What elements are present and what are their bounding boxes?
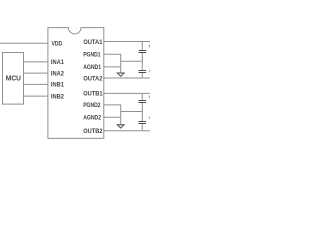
wire VDD supply	[0, 42, 48, 44]
ground symbol B	[117, 125, 124, 128]
clipped capacitor label fragment near C1	[149, 45, 150, 48]
driver IC U1 body with pin-1 notch	[48, 28, 104, 139]
clipped capacitor label fragment near C4	[149, 116, 150, 119]
wire PGND1	[104, 54, 121, 73]
wire OUTA1	[104, 41, 150, 43]
capacitor C3 (OUTB1 to gnd)	[139, 93, 147, 111]
svg-text:OUTA1: OUTA1	[83, 39, 103, 46]
wire OUTA2	[104, 77, 150, 79]
clipped capacitor label fragment near C2	[149, 70, 150, 73]
svg-text:AGND2: AGND2	[83, 115, 101, 122]
wire MCU to INB2	[24, 95, 48, 97]
wire PGND2	[104, 105, 121, 125]
wire AGND2	[104, 116, 121, 118]
wire OUTB1	[104, 92, 150, 94]
svg-text:OUTA2: OUTA2	[83, 75, 103, 82]
capacitor C2 (gnd to OUTA2)	[139, 61, 147, 78]
svg-text:INB1: INB1	[51, 82, 64, 89]
svg-text:AGND1: AGND1	[83, 64, 101, 71]
svg-text:INA2: INA2	[51, 70, 64, 77]
svg-text:MCU: MCU	[6, 76, 21, 83]
capacitor C4 (gnd to OUTB2)	[139, 112, 147, 131]
wire MCU to INB1	[24, 83, 48, 85]
wire AGND1	[104, 66, 121, 68]
svg-text:PGND1: PGND1	[83, 52, 101, 59]
wire gnd branch A to capacitors	[121, 60, 143, 62]
MCU block	[3, 53, 24, 105]
clipped capacitor label fragment near C3	[149, 96, 150, 99]
ground symbol A	[117, 73, 124, 76]
wire MCU to INA2	[24, 72, 48, 74]
svg-text:VDD: VDD	[52, 41, 63, 48]
svg-text:OUTB2: OUTB2	[83, 128, 103, 135]
capacitor C1 (OUTA1 to gnd)	[139, 42, 147, 62]
svg-text:INA1: INA1	[51, 59, 64, 66]
wire gnd branch B to capacitors	[121, 111, 143, 113]
svg-text:OUTB1: OUTB1	[83, 91, 103, 98]
wire OUTB2	[104, 130, 150, 132]
svg-text:INB2: INB2	[51, 93, 64, 100]
svg-text:PGND2: PGND2	[83, 102, 101, 109]
wire MCU to INA1	[24, 61, 48, 63]
